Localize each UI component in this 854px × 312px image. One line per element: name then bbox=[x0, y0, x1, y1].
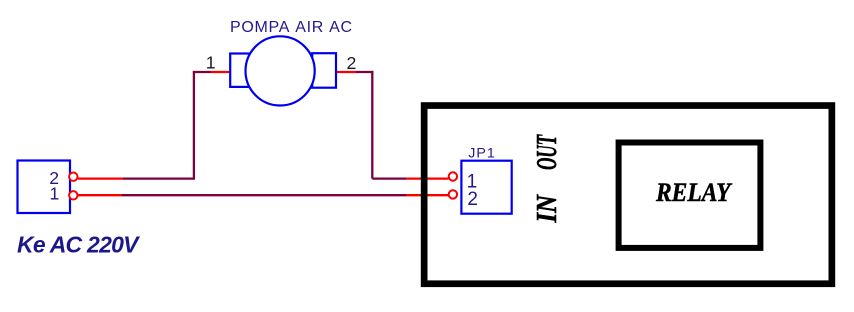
svg-text:IN: IN bbox=[531, 194, 563, 223]
wire red stub at JP1 pin 2 bbox=[406, 194, 449, 196]
svg-text:Ke AC 220V: Ke AC 220V bbox=[17, 232, 140, 258]
motor M1 brush rectangle right bbox=[312, 53, 336, 87]
relay module board outline bbox=[424, 106, 832, 284]
wire maroon horizontal to left connector pin 2 bbox=[123, 177, 195, 179]
wire red stub at left connector pin 2 bbox=[78, 177, 123, 179]
connector JP1 body bbox=[461, 161, 511, 214]
wire red pin stub motor pin 1 bbox=[211, 71, 230, 73]
connector J1 body (left) bbox=[18, 161, 71, 214]
svg-text:RELAY: RELAY bbox=[655, 178, 732, 207]
svg-text:2: 2 bbox=[346, 53, 356, 73]
wire vertical right from motor to JP1 line bbox=[371, 71, 373, 179]
wire red stub at JP1 pin 1 bbox=[406, 177, 449, 179]
svg-text:2: 2 bbox=[467, 189, 478, 210]
connector J1 pin 1 terminal circle bbox=[69, 191, 77, 199]
svg-text:1: 1 bbox=[50, 183, 60, 203]
motor M1 body circle bbox=[246, 36, 315, 105]
svg-text:JP1: JP1 bbox=[468, 146, 495, 162]
svg-text:1: 1 bbox=[206, 52, 216, 72]
wire maroon stub from motor pin 2 bbox=[356, 71, 373, 73]
wire maroon long bottom run bbox=[122, 194, 406, 196]
wire maroon stub to motor pin 1 bbox=[194, 71, 211, 73]
connector J1 pin 2 terminal circle bbox=[69, 173, 77, 181]
wire vertical left from motor to node bbox=[193, 71, 195, 179]
connector JP1 pin 1 terminal circle bbox=[449, 172, 457, 180]
svg-text:POMPA AIR AC: POMPA AIR AC bbox=[230, 19, 353, 36]
svg-text:OUT: OUT bbox=[531, 134, 563, 170]
connector JP1 pin 2 terminal circle bbox=[449, 190, 457, 198]
relay block outline bbox=[619, 143, 761, 248]
wire red pin stub motor pin 2 bbox=[336, 71, 356, 73]
motor M1 brush rectangle left bbox=[230, 54, 250, 87]
wire red stub at left connector pin 1 bbox=[78, 194, 122, 196]
wire maroon from right vertical to JP1 pin 1 bbox=[372, 177, 406, 179]
